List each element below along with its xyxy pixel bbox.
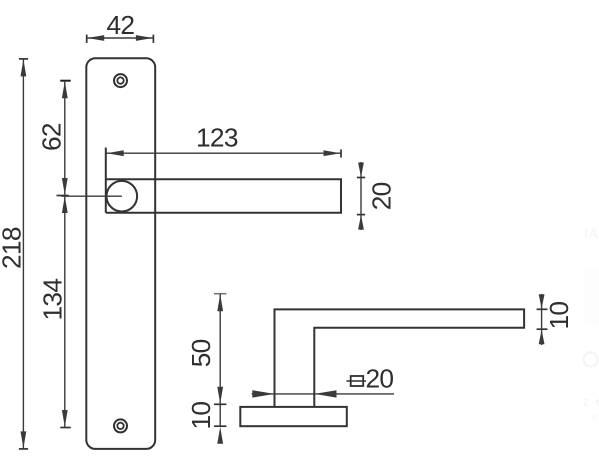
svg-text:134: 134 xyxy=(38,279,68,321)
svg-text:42: 42 xyxy=(107,10,135,40)
watermark rectangle xyxy=(585,268,599,326)
svg-text:123: 123 xyxy=(196,123,238,153)
svg-text:IAD: IAD xyxy=(584,225,599,241)
dimension 123 (lever length) xyxy=(106,123,341,158)
watermark text IAD xyxy=(584,225,599,241)
backplate outline (front view) xyxy=(86,58,155,449)
svg-text:62: 62 xyxy=(37,123,67,151)
dimension 10 (lever thickness, side view right) xyxy=(537,294,574,345)
bottom screw hole xyxy=(114,419,127,432)
svg-text:20: 20 xyxy=(366,364,394,394)
lever hub circle (front view) xyxy=(107,181,138,212)
dimension 50 and 10 (side view heights, left) xyxy=(186,294,227,444)
dimension 134 (handle axis to bottom screw) xyxy=(38,196,71,428)
watermark circle logo xyxy=(584,353,598,367)
svg-text:10: 10 xyxy=(544,302,574,330)
dimension square 20 (spindle / neck width) xyxy=(252,364,394,398)
svg-text:218: 218 xyxy=(0,227,26,269)
lever handle bar (front view) xyxy=(106,148,341,213)
svg-text:Z O: Z O xyxy=(583,398,599,409)
dimension 42 (plate width) xyxy=(87,10,154,43)
dimension 62 (top screw to handle axis) xyxy=(37,81,71,196)
watermark text V xyxy=(591,413,598,424)
lever side view outline xyxy=(275,309,525,407)
svg-text:20: 20 xyxy=(367,182,397,210)
svg-text:V: V xyxy=(591,413,598,424)
rose / base plate side view xyxy=(240,407,346,426)
svg-text:50: 50 xyxy=(186,339,216,367)
centerline from hub to dimension xyxy=(61,195,121,197)
top screw hole xyxy=(114,74,127,87)
watermark text ZO xyxy=(583,398,599,409)
svg-text:10: 10 xyxy=(186,402,216,430)
dimension 20 (lever thickness, front view) xyxy=(357,162,397,230)
dimension 218 (plate height) xyxy=(0,59,28,449)
